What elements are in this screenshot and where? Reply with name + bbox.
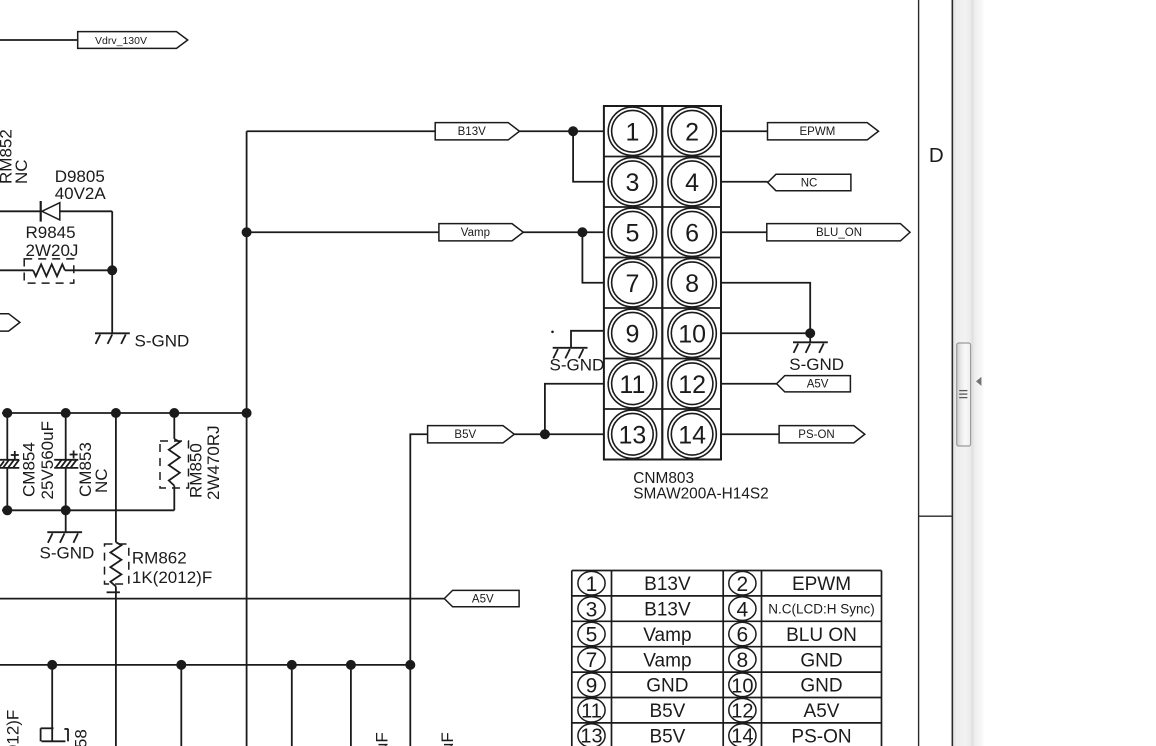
junction CM853 top — [61, 408, 71, 418]
junction dot — [107, 265, 117, 275]
wire drop 4 — [350, 665, 352, 746]
wire drop 2 — [180, 665, 182, 746]
flag Vamp — [439, 224, 523, 241]
wire pin 9 to ground — [571, 331, 604, 348]
svg-text:5: 5 — [586, 624, 598, 647]
pin 3 — [608, 158, 656, 206]
svg-text:S-GND: S-GND — [135, 331, 190, 350]
svg-text:3: 3 — [586, 598, 598, 621]
svg-text:1: 1 — [625, 118, 639, 146]
svg-text:B5V: B5V — [454, 429, 476, 441]
svg-text:NC: NC — [801, 177, 818, 189]
node Vamp2 — [577, 227, 587, 237]
resistor RM862 — [105, 413, 213, 746]
svg-text:7: 7 — [625, 270, 639, 298]
resistor RM850 — [160, 413, 223, 510]
wire diode to ground — [111, 211, 113, 333]
ground S-GND (left) — [95, 331, 189, 350]
svg-text:8: 8 — [685, 270, 699, 298]
svg-text:11: 11 — [581, 700, 602, 722]
svg-text:B13V: B13V — [458, 126, 486, 138]
pin 14 — [668, 410, 716, 458]
wire net B5V — [410, 434, 427, 746]
svg-text:Vamp: Vamp — [643, 625, 691, 646]
pin 10 — [668, 309, 716, 357]
junction RM862 top — [111, 408, 121, 418]
pin 8 — [668, 259, 716, 307]
svg-text:A5V: A5V — [804, 701, 840, 722]
svg-text:2W20J: 2W20J — [26, 241, 79, 260]
wire drop 1 — [51, 665, 53, 741]
capacitor CM853 — [54, 413, 111, 510]
svg-text:S-GND: S-GND — [550, 356, 605, 375]
svg-text:25V560uF: 25V560uF — [38, 421, 57, 499]
svg-text:B5V: B5V — [649, 701, 685, 722]
svg-text:Vdrv_130V: Vdrv_130V — [95, 35, 147, 47]
resistor RM852 label — [0, 129, 31, 184]
svg-text:1K(2012)F: 1K(2012)F — [132, 568, 212, 587]
pin 9 — [608, 309, 656, 357]
node B13V — [568, 126, 578, 136]
svg-text:12: 12 — [731, 700, 753, 722]
svg-text:B5V: B5V — [649, 727, 685, 746]
flag PS-ON — [779, 426, 865, 443]
connector CNM803 outline — [604, 106, 721, 460]
junction lower bus 2 — [176, 660, 186, 670]
junction bus corner — [242, 408, 252, 418]
junction lower bus B5V — [405, 660, 415, 670]
svg-text:GND: GND — [800, 676, 842, 697]
flag NC — [768, 174, 851, 190]
flag A5V (left) — [444, 590, 519, 606]
wire pin 10 — [721, 332, 810, 334]
svg-text:1K(2012)F: 1K(2012)F — [3, 710, 22, 746]
flag BLU_ON — [767, 224, 910, 241]
svg-text:9: 9 — [586, 675, 598, 698]
wire pin 6 to BLU_ON — [721, 231, 767, 233]
wire Vdrv_130V — [0, 39, 78, 41]
table names col2 — [643, 574, 691, 746]
svg-text:4: 4 — [737, 598, 749, 621]
table names col4 — [768, 574, 875, 746]
pin 2 — [668, 107, 716, 155]
svg-text:8: 8 — [737, 649, 749, 672]
wire net B13V vertical — [246, 131, 248, 746]
svg-text:SMAW200A-H14S2: SMAW200A-H14S2 — [633, 486, 768, 503]
svg-text:13: 13 — [580, 726, 602, 746]
flag EPWM — [768, 123, 879, 140]
wire pin 2 to EPWM — [721, 130, 768, 132]
node B5V — [540, 429, 550, 439]
svg-text:B13V: B13V — [644, 574, 691, 595]
svg-text:560uF: 560uF — [373, 732, 392, 746]
svg-text:5: 5 — [625, 219, 639, 247]
svg-text:RM850: RM850 — [187, 443, 206, 498]
wire bottom bus — [2, 509, 174, 511]
svg-text:D: D — [929, 144, 944, 167]
svg-text:GND: GND — [800, 650, 842, 671]
junction CM854 bottom — [2, 505, 12, 515]
svg-text:2W470RJ: 2W470RJ — [204, 425, 223, 500]
wire pin 14 to PS-ON — [721, 433, 779, 435]
svg-text:CNM803: CNM803 — [633, 470, 694, 487]
svg-text:6: 6 — [737, 624, 749, 647]
pin 6 — [668, 208, 716, 256]
scrollbar thumb — [957, 343, 971, 446]
ground S-GND below CM853 — [40, 510, 95, 562]
wire drop 3 — [291, 665, 293, 746]
svg-text:10: 10 — [678, 320, 706, 348]
node Vamp — [242, 227, 252, 237]
wire to pin 7 — [582, 232, 604, 283]
svg-text:560uF: 560uF — [438, 732, 457, 746]
pin 1 — [608, 107, 656, 155]
junction CM854 top — [2, 408, 12, 418]
svg-text:PS-ON: PS-ON — [791, 727, 851, 746]
svg-text:Vamp: Vamp — [461, 227, 490, 239]
pin table — [572, 571, 882, 746]
svg-text:RM858: RM858 — [71, 729, 90, 746]
svg-text:3: 3 — [625, 169, 639, 197]
speck — [551, 331, 554, 334]
zone divider tick — [919, 515, 953, 517]
wire flag to pin 5 — [523, 231, 604, 233]
svg-text:B13V: B13V — [644, 600, 691, 621]
wire B13V horizontal — [247, 130, 436, 132]
svg-text:RM862: RM862 — [132, 549, 187, 568]
wire top bus — [2, 412, 247, 414]
wire Vamp horizontal — [247, 231, 439, 233]
svg-text:12: 12 — [678, 371, 706, 399]
flag A5V (right side) — [777, 376, 851, 392]
flag Vdrv_130V — [78, 32, 188, 49]
svg-text:9: 9 — [625, 320, 639, 348]
svg-text:6: 6 — [685, 219, 699, 247]
svg-text:NC: NC — [12, 159, 31, 184]
pin 13 — [608, 410, 656, 458]
svg-text:BLU_ON: BLU_ON — [816, 227, 862, 239]
sheet border outer line — [951, 0, 953, 746]
svg-text:R9845: R9845 — [26, 223, 76, 242]
svg-text:A5V: A5V — [807, 379, 829, 391]
table pin numbers col3 — [729, 571, 756, 746]
wire pin 4 to NC — [721, 181, 768, 183]
junction lower bus 3 — [287, 660, 297, 670]
svg-text:BLU ON: BLU ON — [786, 625, 857, 646]
junction CM853 bottom — [61, 505, 71, 515]
pin 12 — [668, 360, 716, 408]
svg-text:A5V: A5V — [472, 593, 494, 605]
svg-text:PS-ON: PS-ON — [798, 429, 834, 441]
svg-text:Vamp: Vamp — [643, 650, 691, 671]
svg-text:2: 2 — [737, 573, 749, 596]
svg-text:4: 4 — [685, 169, 699, 197]
pin 5 — [608, 208, 656, 256]
flag B13V — [435, 123, 519, 140]
capacitor CM854 — [0, 413, 57, 510]
svg-text:GND: GND — [646, 676, 688, 697]
component fragment CM858 (bottom edge) — [41, 728, 91, 746]
svg-text:11: 11 — [619, 371, 645, 399]
svg-text:7: 7 — [586, 649, 598, 672]
svg-text:14: 14 — [731, 726, 753, 746]
junction RM850 top — [169, 408, 179, 418]
svg-text:1: 1 — [586, 573, 598, 596]
svg-text:40V2A: 40V2A — [55, 184, 107, 203]
svg-text:10: 10 — [731, 676, 753, 698]
node gnd right — [805, 328, 815, 338]
junction lower bus 4 — [346, 660, 356, 670]
svg-text:13: 13 — [618, 421, 646, 449]
junction lower bus 1 — [47, 660, 57, 670]
wire to pin 11 — [545, 384, 604, 435]
pin 11 — [608, 360, 656, 408]
partial flag at left edge — [0, 314, 20, 331]
scrollbar track — [953, 0, 983, 746]
panel collapse arrow — [976, 377, 981, 386]
ground S-GND (right) — [789, 342, 844, 374]
diode D9805 — [0, 167, 112, 222]
svg-text:S-GND: S-GND — [789, 355, 844, 374]
svg-text:CM854: CM854 — [20, 442, 39, 497]
resistor R9845 — [0, 223, 112, 283]
svg-text:EPWM: EPWM — [792, 574, 851, 595]
svg-text:N.C(LCD:H Sync): N.C(LCD:H Sync) — [768, 601, 875, 616]
svg-text:EPWM: EPWM — [800, 126, 836, 138]
wire pin 8 down — [721, 283, 810, 343]
wire lower bus — [0, 664, 410, 666]
pin 7 — [608, 259, 656, 307]
wire A5V line — [0, 598, 444, 600]
svg-text:NC: NC — [92, 468, 111, 493]
wire flag to pin 13 — [514, 433, 604, 435]
svg-text:S-GND: S-GND — [40, 544, 95, 563]
table pin numbers col1 — [578, 571, 605, 746]
ground S-GND (pin 9) — [550, 348, 605, 375]
svg-text:2: 2 — [685, 118, 699, 146]
wire flag to pin 1 — [520, 130, 604, 132]
flag B5V — [428, 426, 515, 443]
sheet border inner line — [918, 0, 920, 746]
pin 4 — [668, 158, 716, 206]
wire pin 12 to A5V — [721, 383, 777, 385]
svg-text:14: 14 — [678, 421, 706, 449]
wire to pin 3 — [573, 131, 604, 182]
